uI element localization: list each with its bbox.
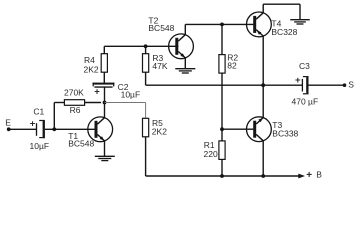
svg-text:BC338: BC338 xyxy=(272,128,298,138)
svg-text:470 µF: 470 µF xyxy=(292,97,319,107)
svg-text:R6: R6 xyxy=(70,105,81,115)
svg-text:220: 220 xyxy=(204,149,218,159)
svg-text:C3: C3 xyxy=(299,61,310,71)
svg-text:+: + xyxy=(306,170,312,181)
svg-text:10µF: 10µF xyxy=(30,141,50,151)
svg-text:E: E xyxy=(5,118,11,128)
svg-text:+: + xyxy=(94,87,100,98)
svg-text:C1: C1 xyxy=(33,107,44,117)
svg-text:BC328: BC328 xyxy=(271,27,297,37)
svg-text:BC548: BC548 xyxy=(68,138,94,148)
svg-text:BC548: BC548 xyxy=(148,23,174,33)
svg-text:B: B xyxy=(316,170,322,180)
svg-text:10µF: 10µF xyxy=(121,90,141,100)
svg-text:270K: 270K xyxy=(64,87,84,97)
svg-text:2K2: 2K2 xyxy=(84,65,99,75)
svg-text:47K: 47K xyxy=(152,61,167,71)
svg-text:+: + xyxy=(30,118,36,129)
svg-text:+: + xyxy=(295,75,301,86)
svg-text:82: 82 xyxy=(227,61,237,71)
svg-text:S: S xyxy=(348,80,354,90)
svg-text:2K2: 2K2 xyxy=(152,126,167,136)
